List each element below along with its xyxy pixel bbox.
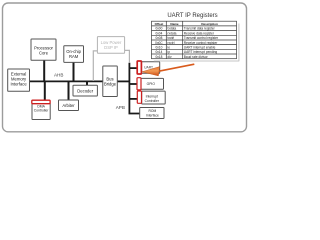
block: UART IP	[141, 62, 160, 74]
svg-text:Interface: Interface	[10, 82, 27, 87]
block: processor core	[31, 39, 56, 60]
svg-text:Receive data register: Receive data register	[184, 31, 215, 35]
svg-text:UART IP Registers: UART IP Registers	[167, 13, 217, 19]
svg-text:APB: APB	[116, 105, 125, 110]
block: low power DSP IP (inactive gray)	[97, 37, 124, 54]
wire: gray DSP to AHB	[93, 51, 97, 81]
register table shadow	[238, 24, 240, 62]
svg-text:Arbiter: Arbiter	[62, 103, 75, 108]
block: ROM interface	[140, 108, 164, 119]
svg-text:Interface: Interface	[146, 113, 159, 117]
svg-text:Description: Description	[201, 22, 218, 26]
svg-text:RAM: RAM	[69, 54, 79, 59]
red APB interface rect on UART (highlighted)	[137, 61, 141, 74]
red APB interface rect on GPIO	[137, 78, 141, 90]
wire: stub APB to GPIO	[129, 83, 137, 85]
red AHB interface bar on DMA controller	[32, 100, 50, 104]
wire: bridge to APB bus	[117, 80, 129, 82]
block: on-chip RAM	[64, 46, 84, 63]
svg-text:UART interrupt enable: UART interrupt enable	[184, 45, 216, 49]
wire: stub APB to UART	[129, 67, 137, 69]
svg-text:Interrupt: Interrupt	[146, 94, 158, 98]
block: decoder	[73, 85, 97, 96]
block: interrupt controller	[142, 91, 166, 104]
svg-text:0x18: 0x18	[155, 55, 162, 59]
svg-text:div: div	[168, 55, 172, 59]
wire: processor core to AHB	[43, 60, 45, 81]
wire: AHB to arbiter	[68, 81, 70, 100]
svg-text:ip: ip	[168, 50, 171, 54]
block: bus bridge	[103, 66, 118, 97]
svg-text:AHB: AHB	[54, 73, 63, 78]
svg-text:Offset: Offset	[155, 22, 164, 26]
svg-text:0x04: 0x04	[155, 31, 162, 35]
block: DMA controller	[32, 103, 50, 120]
svg-text:Transmit control register: Transmit control register	[184, 36, 219, 40]
block: external memory interface	[8, 69, 30, 91]
svg-text:0x10: 0x10	[155, 45, 162, 49]
wire: AHB to DMA controller	[44, 81, 46, 100]
table header text	[155, 22, 218, 26]
svg-text:Transmit data register: Transmit data register	[184, 27, 216, 31]
svg-text:Decoder: Decoder	[77, 88, 93, 93]
red APB interface rect on interrupt controller	[137, 91, 141, 103]
svg-text:UART interrupt pending: UART interrupt pending	[184, 50, 218, 54]
outer rounded frame	[3, 3, 247, 132]
svg-text:txctrl: txctrl	[168, 36, 175, 40]
wire: on-chip RAM to AHB	[73, 62, 75, 81]
wire: gray DSP to APB	[125, 50, 130, 62]
wire: stub APB to interrupt controller	[129, 98, 137, 100]
svg-text:Controller: Controller	[145, 99, 160, 103]
wire: APB bus vertical with elbow to ROM interface	[129, 63, 139, 114]
callout arrow from table to UART block	[142, 64, 195, 76]
svg-text:0x0C: 0x0C	[155, 41, 163, 45]
svg-text:0x00: 0x00	[155, 27, 162, 31]
svg-text:rxdata: rxdata	[168, 31, 177, 35]
svg-text:GPIO: GPIO	[147, 82, 156, 86]
svg-text:ie: ie	[168, 45, 171, 49]
wire: AHB to decoder	[86, 81, 88, 85]
svg-text:Controller: Controller	[34, 109, 50, 113]
svg-text:Name: Name	[170, 22, 179, 26]
table rows text	[155, 27, 219, 59]
svg-text:0x14: 0x14	[155, 50, 162, 54]
svg-text:ROM: ROM	[149, 109, 157, 113]
register table	[152, 21, 237, 59]
svg-text:DSP IP: DSP IP	[104, 45, 118, 50]
svg-text:Bridge: Bridge	[104, 82, 117, 87]
svg-text:Receive control register: Receive control register	[184, 41, 218, 45]
svg-text:Core: Core	[39, 50, 49, 55]
block: GPIO	[141, 78, 164, 89]
svg-text:rxctrl: rxctrl	[168, 41, 175, 45]
svg-text:0x08: 0x08	[155, 36, 162, 40]
block: arbiter	[59, 100, 79, 111]
wire: AHB bus horizontal	[30, 80, 103, 82]
svg-text:txdata: txdata	[168, 27, 177, 31]
svg-text:Baud rate divisor: Baud rate divisor	[184, 55, 209, 59]
